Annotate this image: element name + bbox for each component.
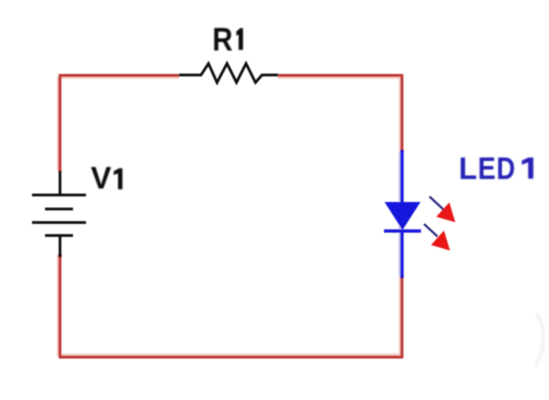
svg-text:R: R <box>212 22 232 58</box>
LED cathode bar <box>384 229 421 232</box>
wire halo bleeds (red) <box>59 77 402 356</box>
resistor R1 <box>179 64 278 83</box>
battery V1 <box>32 171 86 257</box>
LED LED1 <box>384 150 455 278</box>
LED triangle (anode) <box>385 202 421 230</box>
LED emission arrow 1 head <box>436 202 455 222</box>
wire: LED cathode lead (blue) <box>400 231 403 278</box>
wire: left vertical + top-left horizontal (red) <box>60 75 179 172</box>
svg-text:D: D <box>496 152 515 187</box>
wire: top-right horizontal + right vertical upper (red) <box>278 75 402 152</box>
LED emission arrow 2 head <box>431 231 450 251</box>
svg-text:E: E <box>478 151 496 187</box>
LED emission arrow 1 shaft <box>430 197 445 211</box>
svg-text:L: L <box>459 150 477 186</box>
LED emission arrow 2 shaft <box>424 224 438 237</box>
wire: LED anode lead (blue) <box>400 150 403 203</box>
label LED1 <box>459 150 534 186</box>
label V1 <box>91 160 123 195</box>
wire halo bleed (blue) <box>399 152 403 276</box>
wire: bottom loop left vertical + bottom horizontal + right vertical lower (red) <box>60 254 402 357</box>
svg-text:V: V <box>91 160 112 195</box>
faint watermark arc at right edge <box>535 313 544 367</box>
label R1 <box>212 22 243 58</box>
